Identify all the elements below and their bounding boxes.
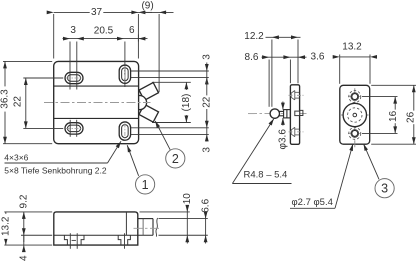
latch ball xyxy=(132,96,146,110)
leader for slot labels xyxy=(5,162,108,164)
svg-text:10: 10 xyxy=(182,193,193,205)
counterbore profile left xyxy=(64,235,67,245)
slot top-left counterbore xyxy=(65,72,83,83)
svg-text:22: 22 xyxy=(12,96,23,108)
dimension 36.3 xyxy=(3,60,52,62)
svg-text:1: 1 xyxy=(142,178,149,192)
svg-text:(9): (9) xyxy=(141,0,153,11)
svg-text:5×8 Tiefe Senkbohrung 2.2: 5×8 Tiefe Senkbohrung 2.2 xyxy=(4,166,107,176)
stud flange box xyxy=(284,110,291,118)
ball neck xyxy=(279,110,283,112)
svg-text:16: 16 xyxy=(388,110,399,122)
svg-text:13.2: 13.2 xyxy=(342,42,362,53)
lower hole centerline xyxy=(289,131,304,133)
side view centerline xyxy=(134,227,161,229)
dimension 4 xyxy=(23,235,25,251)
plunger break line xyxy=(156,218,158,237)
view 3: strike side view centerline xyxy=(248,113,309,115)
latch wing upper xyxy=(139,83,159,101)
svg-text:6.6: 6.6 xyxy=(200,198,211,212)
svg-text:3: 3 xyxy=(70,25,76,36)
center ball hole xyxy=(343,103,366,126)
balloon 1 leader xyxy=(127,145,138,176)
svg-text:R4.8 – 5.4: R4.8 – 5.4 xyxy=(244,170,288,181)
dimension (9) xyxy=(158,14,160,92)
svg-text:37: 37 xyxy=(91,7,103,18)
slot center marks xyxy=(66,77,82,79)
balloon 2 leader xyxy=(155,121,170,150)
dimension 20.5 xyxy=(91,26,116,36)
dimension 9.2 xyxy=(21,234,52,236)
svg-text:3.6: 3.6 xyxy=(311,52,325,63)
dimension 13.2 plate xyxy=(339,55,341,84)
plate mid bump xyxy=(299,110,303,115)
svg-text:3: 3 xyxy=(381,182,388,196)
body centerline xyxy=(44,102,151,104)
svg-text:3: 3 xyxy=(201,54,212,60)
dimension 13.2 side xyxy=(4,211,52,213)
balloon 1 xyxy=(136,175,155,194)
slot top-right counterbore xyxy=(119,65,130,83)
dimension 3 right bottom xyxy=(206,128,208,142)
svg-text:4: 4 xyxy=(18,255,29,261)
slot through-lines bottom-left xyxy=(69,120,71,137)
latch body outline xyxy=(54,61,139,143)
svg-text:36.3: 36.3 xyxy=(0,89,11,109)
svg-text:9.2: 9.2 xyxy=(18,194,29,208)
strike plate profile xyxy=(290,85,299,145)
flange line xyxy=(54,234,153,236)
dimension 22 left xyxy=(23,77,63,79)
dimension 10 xyxy=(140,211,190,213)
plate horizontal centerline xyxy=(341,114,369,116)
strike ball xyxy=(270,109,279,118)
balloon 2 xyxy=(166,149,185,168)
slot bottom-right counterbore xyxy=(119,122,130,140)
body inner step lines xyxy=(54,85,139,87)
view 4: strike plate front outline xyxy=(340,85,370,144)
latch wing lower xyxy=(139,104,159,122)
svg-text:(18): (18) xyxy=(181,94,192,112)
svg-text:6: 6 xyxy=(129,25,135,36)
slot through-lines top-left xyxy=(69,42,71,90)
slot top-right through-lines xyxy=(131,70,209,72)
plate vertical centerline xyxy=(354,88,356,147)
dimension 8.6 xyxy=(268,60,270,107)
dimension 6.6 xyxy=(159,218,208,220)
dimension 12.2 xyxy=(271,40,273,107)
dimension 26 xyxy=(371,84,416,86)
svg-text:13.2: 13.2 xyxy=(1,216,12,236)
slot bottom-left counterbore xyxy=(65,123,83,134)
plate inner notch xyxy=(295,111,300,116)
svg-text:3: 3 xyxy=(201,147,212,153)
svg-text:22: 22 xyxy=(201,96,212,108)
dimension 3 right top xyxy=(206,63,208,72)
svg-text:φ2.7 φ5.4: φ2.7 φ5.4 xyxy=(292,197,333,208)
counterbore profile right xyxy=(118,235,121,245)
dimension phi3.6 xyxy=(282,102,284,110)
dimension 6 xyxy=(137,35,139,42)
view 2: latch side view body xyxy=(54,212,138,245)
upper screw hole xyxy=(348,96,362,98)
svg-text:26: 26 xyxy=(405,111,416,123)
body seam xyxy=(125,212,127,235)
balloon 3 xyxy=(375,179,394,198)
dimension 37 xyxy=(53,14,55,59)
dimension 3 top chain xyxy=(63,38,148,40)
dimension (18) xyxy=(152,81,191,83)
lower countersink cone xyxy=(290,130,292,134)
dimension 16 xyxy=(362,96,398,98)
upper hole centerline xyxy=(289,94,304,96)
plunger xyxy=(138,218,153,220)
svg-text:φ3.6: φ3.6 xyxy=(277,129,288,150)
balloon 3 leader xyxy=(364,144,380,180)
upper countersink cone xyxy=(290,93,292,97)
svg-text:12.2: 12.2 xyxy=(244,31,264,42)
svg-text:20.5: 20.5 xyxy=(94,25,114,36)
svg-text:8.6: 8.6 xyxy=(245,52,259,63)
extension line 20.5/6 through top-right slot xyxy=(124,42,126,88)
dimension 22 right xyxy=(206,71,208,128)
svg-text:4×3×6: 4×3×6 xyxy=(4,153,28,163)
svg-text:2: 2 xyxy=(172,152,179,166)
slot bottom-right through-lines xyxy=(131,127,209,129)
lower screw hole xyxy=(348,132,362,134)
